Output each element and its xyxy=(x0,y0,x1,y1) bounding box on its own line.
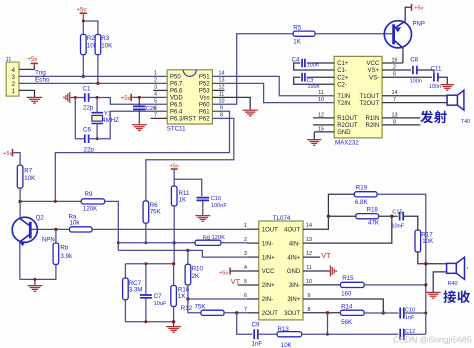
svg-text:P61: P61 xyxy=(199,110,210,116)
svg-text:1IN+: 1IN+ xyxy=(262,255,275,261)
ground (MAX232) xyxy=(307,140,321,146)
wire +5v to VDD pin4 xyxy=(131,96,167,98)
svg-text:R7: R7 xyxy=(24,167,32,174)
wire PNP emitter to +5v xyxy=(405,7,411,21)
wire R13 to junction xyxy=(302,333,328,335)
svg-text:T2IN: T2IN xyxy=(337,101,350,107)
label receive xyxy=(443,290,456,303)
svg-text:10uF: 10uF xyxy=(154,301,167,307)
resistor R16 xyxy=(173,264,175,286)
wire C6 to MCU pin6 xyxy=(89,111,168,139)
svg-text:R15: R15 xyxy=(342,275,354,282)
wire ground to C1 xyxy=(70,97,84,99)
svg-text:4: 4 xyxy=(11,67,15,74)
svg-text:P51: P51 xyxy=(199,75,210,81)
transistor Q2 NPN xyxy=(12,217,37,242)
wire 4IN- to R18/C15 junction xyxy=(303,216,392,243)
junction C7 bottom xyxy=(144,320,147,323)
wire C10 to V1 xyxy=(404,312,426,314)
svg-text:1: 1 xyxy=(154,71,157,77)
resistor Ra xyxy=(70,227,93,232)
svg-text:3OUT: 3OUT xyxy=(284,311,300,317)
junction VDD/C26 xyxy=(138,96,141,99)
wire RC7 block bottom row xyxy=(125,321,173,323)
svg-text:VT: VT xyxy=(321,251,331,260)
ground (crystal, left) xyxy=(64,92,70,103)
capacitor C3 loop xyxy=(294,77,335,84)
svg-text:10: 10 xyxy=(306,279,312,285)
resistor R3 xyxy=(95,34,101,54)
wire Ra to 1OUT row xyxy=(92,228,247,230)
svg-text:1: 1 xyxy=(244,223,247,229)
svg-text:R2OUT: R2OUT xyxy=(337,123,358,129)
svg-text:C11: C11 xyxy=(431,65,442,72)
svg-text:T2OUT: T2OUT xyxy=(360,101,380,107)
ground (C26) xyxy=(132,125,147,131)
svg-text:+5v: +5v xyxy=(28,57,38,63)
svg-text:1: 1 xyxy=(11,88,15,95)
ground (J1) xyxy=(27,97,43,103)
wire R7 to collector node xyxy=(19,188,21,218)
svg-text:R13: R13 xyxy=(278,326,290,333)
ground (Q2 emitter) xyxy=(27,286,42,292)
capacitor C1 xyxy=(85,93,89,102)
svg-text:C16: C16 xyxy=(211,196,221,202)
svg-text:10K: 10K xyxy=(422,238,434,245)
svg-text:P52: P52 xyxy=(199,82,210,88)
svg-text:+5v: +5v xyxy=(3,151,12,157)
svg-text:14: 14 xyxy=(219,70,225,76)
wire R18 row xyxy=(328,215,355,217)
svg-text:3.9k: 3.9k xyxy=(60,253,73,260)
wire T2OUT to transducer xyxy=(382,102,447,104)
svg-text:T1OUT: T1OUT xyxy=(360,94,380,100)
ground (receiver) xyxy=(426,292,441,298)
svg-text:C3: C3 xyxy=(307,78,314,84)
svg-text:R2IN: R2IN xyxy=(366,123,380,129)
junction 3IN+ tap xyxy=(382,311,385,314)
junction 3OUT/bottom branch xyxy=(326,311,329,314)
svg-text:+5v: +5v xyxy=(414,6,423,12)
resistor Rb xyxy=(53,243,59,265)
wire 3IN+ to R14 row xyxy=(303,299,383,313)
transducer T40 transmit xyxy=(447,95,457,105)
svg-text:P6.6: P6.6 xyxy=(170,89,183,95)
junction emitter gnd xyxy=(33,278,36,281)
svg-text:11: 11 xyxy=(219,91,225,97)
wire node to 1IN+ xyxy=(118,249,188,251)
resistor R7 xyxy=(17,165,23,188)
svg-text:10nF: 10nF xyxy=(391,223,404,229)
junction R10 top xyxy=(186,249,189,252)
svg-text:8: 8 xyxy=(308,307,311,313)
svg-text:R2: R2 xyxy=(87,35,95,42)
svg-text:11: 11 xyxy=(318,90,324,96)
capacitor C16 xyxy=(197,198,210,201)
svg-text:2OUT: 2OUT xyxy=(262,311,278,317)
svg-text:2: 2 xyxy=(244,237,247,243)
IC U2 MAX232 xyxy=(334,56,382,137)
wire R18 to C15 xyxy=(379,215,398,217)
wire R2 to Trig line xyxy=(82,55,84,77)
svg-text:C1-: C1- xyxy=(337,68,347,74)
junction C7 top xyxy=(144,262,147,265)
ground (R16) xyxy=(166,327,181,333)
svg-text:13: 13 xyxy=(306,237,312,243)
svg-text:R8: R8 xyxy=(203,235,210,241)
svg-text:R1OUT: R1OUT xyxy=(337,116,358,122)
wire Q2 emitter down xyxy=(19,242,21,280)
junction row242 tap xyxy=(117,241,120,244)
capacitor C10 xyxy=(400,308,404,319)
svg-text:10: 10 xyxy=(219,98,225,104)
junction bottom row xyxy=(326,333,329,336)
svg-text:J1: J1 xyxy=(6,57,12,63)
svg-text:10K: 10K xyxy=(24,175,36,182)
svg-text:10: 10 xyxy=(318,97,324,103)
svg-text:VS+: VS+ xyxy=(368,68,380,74)
MCU pin7 stub xyxy=(151,117,168,119)
connector J1 xyxy=(6,62,19,96)
junction crystal bottom xyxy=(96,137,99,140)
svg-text:8: 8 xyxy=(220,112,223,118)
svg-text:GND: GND xyxy=(287,269,301,275)
svg-text:12: 12 xyxy=(306,251,312,257)
junction C10/V1 xyxy=(424,312,427,315)
svg-text:+5v: +5v xyxy=(219,271,228,277)
svg-text:12: 12 xyxy=(219,84,225,90)
svg-text:2IN+: 2IN+ xyxy=(262,283,275,289)
wire C9 to R13 xyxy=(258,333,277,335)
svg-text:C8: C8 xyxy=(410,56,418,63)
svg-text:R9: R9 xyxy=(85,191,93,198)
junction R18 tap xyxy=(327,215,330,218)
svg-text:R12: R12 xyxy=(181,305,193,312)
wire R9 to 1IN+ node xyxy=(105,201,119,250)
svg-text:2IN-: 2IN- xyxy=(262,297,273,303)
wire R3 to Echo line xyxy=(97,55,99,84)
svg-text:+5v: +5v xyxy=(121,96,131,102)
svg-text:C1: C1 xyxy=(83,86,91,93)
TL074 GND sideways ground xyxy=(303,270,330,272)
svg-text:GND: GND xyxy=(337,130,351,136)
svg-text:1nF: 1nF xyxy=(405,315,415,321)
svg-text:VS-: VS- xyxy=(369,75,379,81)
resistor R8 xyxy=(195,240,221,245)
svg-text:STC11: STC11 xyxy=(167,126,186,133)
svg-text:Q2: Q2 xyxy=(36,216,45,222)
svg-text:4OUT: 4OUT xyxy=(284,227,300,233)
wire R19 to V1 column xyxy=(377,194,426,334)
wire P51 to T1IN xyxy=(212,76,334,95)
transistor Q1 PNP xyxy=(384,21,411,48)
resistor R13 xyxy=(277,332,302,337)
wire P62 to bus2 xyxy=(146,118,234,200)
svg-text:R14: R14 xyxy=(341,303,353,310)
svg-text:R40: R40 xyxy=(448,281,458,287)
svg-text:160: 160 xyxy=(341,291,352,298)
wire P52 to T2IN xyxy=(212,83,334,102)
ground (C16) xyxy=(195,216,210,222)
wire branch down xyxy=(327,313,329,334)
wire bottom row to C12 xyxy=(328,333,399,335)
ground (TL074 GND) xyxy=(330,266,336,277)
svg-text:13: 13 xyxy=(219,77,225,83)
svg-text:TL074: TL074 xyxy=(273,215,291,222)
svg-text:1IN-: 1IN- xyxy=(262,241,273,247)
capacitor C4 loop xyxy=(294,63,335,70)
svg-text:MAX232: MAX232 xyxy=(335,139,359,146)
svg-text:CSDN @Songji5665: CSDN @Songji5665 xyxy=(393,335,472,345)
resistor R15 xyxy=(340,282,364,287)
svg-text:3IN+: 3IN+ xyxy=(287,297,300,303)
svg-text:100n: 100n xyxy=(307,63,319,69)
capacitor C26 xyxy=(138,97,140,106)
svg-text:VDD: VDD xyxy=(170,96,183,102)
wire 4OUT to feedback column xyxy=(303,194,354,229)
svg-text:10k: 10k xyxy=(70,220,81,227)
svg-text:100nF: 100nF xyxy=(211,203,227,209)
junction V1/receiver row xyxy=(424,262,427,265)
wire PNP collector to VCC row xyxy=(402,48,404,63)
svg-text:7: 7 xyxy=(154,113,157,119)
wire RC7 block top row xyxy=(125,263,173,265)
power +5v (R2/R3 pullups) xyxy=(82,17,84,34)
wire 3OUT row xyxy=(303,312,340,314)
wire R12 to 2OUT xyxy=(224,312,247,314)
junction R10/row299 xyxy=(186,297,189,300)
svg-text:9: 9 xyxy=(220,105,223,111)
svg-text:C7: C7 xyxy=(154,293,162,300)
svg-text:P6.7: P6.7 xyxy=(170,82,183,88)
J1 pin1 wire to ground xyxy=(19,90,35,97)
junction R2-Trig xyxy=(82,75,85,78)
svg-text:PNP: PNP xyxy=(413,21,425,27)
wire C15 to R17 xyxy=(403,216,418,230)
transducer R40 receive xyxy=(447,263,457,273)
svg-text:P62: P62 xyxy=(199,117,210,123)
svg-text:3IN-: 3IN- xyxy=(289,283,300,289)
ground (C11) xyxy=(441,85,455,91)
power +5v (PNP) xyxy=(411,4,413,11)
svg-text:75K: 75K xyxy=(195,304,207,311)
svg-text:11: 11 xyxy=(306,265,312,271)
svg-text:75K: 75K xyxy=(150,209,162,216)
wire R17 to receiver xyxy=(418,252,447,264)
net label VT (4IN+) xyxy=(303,256,320,258)
svg-text:C9: C9 xyxy=(252,322,260,329)
resistor R5 xyxy=(293,31,315,36)
MAX232 R1IN stub xyxy=(382,117,420,119)
wire row242 xyxy=(118,242,195,244)
capacitor C8 on VS+ xyxy=(382,69,411,71)
MCU pin12 stub xyxy=(212,89,224,91)
svg-text:2: 2 xyxy=(154,78,157,84)
svg-text:C6: C6 xyxy=(83,127,91,134)
resistor R9 xyxy=(81,199,105,204)
svg-text:3.3M: 3.3M xyxy=(129,287,143,294)
svg-text:6: 6 xyxy=(154,106,157,112)
wire +5v branch to C16 xyxy=(174,179,202,196)
svg-text:R1IN: R1IN xyxy=(366,116,380,122)
capacitor C6 xyxy=(85,135,89,144)
wire T1OUT to transducer xyxy=(382,95,447,97)
svg-text:C2+: C2+ xyxy=(337,75,349,81)
svg-text:10K: 10K xyxy=(101,43,113,50)
svg-text:T1IN: T1IN xyxy=(337,94,350,100)
resistor R18 xyxy=(356,214,379,219)
svg-text:R19: R19 xyxy=(356,184,368,191)
resistor R19 xyxy=(354,192,377,197)
svg-text:4IN-: 4IN- xyxy=(289,241,300,247)
svg-text:P50: P50 xyxy=(170,75,181,81)
junction R2/R3 split xyxy=(82,20,85,23)
svg-text:1K: 1K xyxy=(293,39,301,46)
svg-text:P53: P53 xyxy=(199,89,210,95)
wire branch down to C9 row xyxy=(237,313,253,334)
svg-text:120K: 120K xyxy=(212,235,226,241)
svg-text:P6.3/RST: P6.3/RST xyxy=(170,117,196,123)
junction crystal top xyxy=(96,96,99,99)
wire receiver lower pin to ground xyxy=(433,272,446,292)
svg-text:100n: 100n xyxy=(410,78,422,84)
svg-text:47K: 47K xyxy=(368,219,380,226)
svg-text:100n: 100n xyxy=(429,84,441,90)
ground (Vss) xyxy=(243,110,258,116)
svg-text:P60: P60 xyxy=(199,103,210,109)
wire P60 to R5 xyxy=(212,34,293,105)
wire Echo net xyxy=(19,82,167,84)
svg-text:C2-: C2- xyxy=(337,82,347,88)
svg-text:C4: C4 xyxy=(292,56,300,63)
svg-text:6.8K: 6.8K xyxy=(355,199,369,206)
svg-text:10K: 10K xyxy=(281,342,293,348)
svg-text:3: 3 xyxy=(154,85,157,91)
junction R16 bottom / ground xyxy=(172,320,175,323)
wire P61 to bus1 xyxy=(55,111,229,201)
MCU U1 STC11 xyxy=(167,70,212,124)
junction crystal gnd branch xyxy=(74,96,77,99)
junction R15/V1 xyxy=(424,283,427,286)
junction R11/row242 xyxy=(173,241,176,244)
svg-text:R3: R3 xyxy=(101,35,109,42)
junction 4IN- tap xyxy=(390,215,393,218)
svg-text:P6.4: P6.4 xyxy=(170,110,183,116)
label transmit xyxy=(420,111,433,124)
wire 3IN- to R15 xyxy=(303,284,340,286)
svg-text:1OUT: 1OUT xyxy=(262,227,278,233)
capacitor C7 xyxy=(145,264,147,295)
junction R16 top xyxy=(172,262,175,265)
svg-text:R10: R10 xyxy=(192,265,204,272)
svg-text:4: 4 xyxy=(154,92,157,98)
wire R8 to 1IN- xyxy=(221,242,247,244)
resistor RC7 xyxy=(124,264,126,278)
svg-text:Trig: Trig xyxy=(35,70,46,77)
op-amp U3 TL074 xyxy=(259,221,303,320)
wire C12 to V1 xyxy=(404,333,426,335)
MAX232 GND wire xyxy=(314,131,334,133)
svg-text:4IN+: 4IN+ xyxy=(287,255,300,261)
svg-text:Vss: Vss xyxy=(200,96,210,102)
wire crystal vertical xyxy=(96,98,98,113)
svg-text:Echo: Echo xyxy=(35,77,50,84)
wire R6 bottom to row242 xyxy=(145,223,147,243)
svg-text:VCC: VCC xyxy=(262,269,275,275)
svg-text:P6.5: P6.5 xyxy=(170,103,183,109)
svg-text:3: 3 xyxy=(11,74,15,81)
wire R10 node down to R12 row xyxy=(188,299,201,313)
junction R7/Q2/R9 xyxy=(18,200,21,203)
svg-text:C15: C15 xyxy=(392,210,402,216)
wire node to R9 xyxy=(20,200,81,202)
resistor R11 xyxy=(171,186,177,206)
capacitor C9 xyxy=(254,329,258,339)
resistor R6 xyxy=(143,201,149,223)
svg-text:NPN: NPN xyxy=(42,238,55,244)
capacitor C15 xyxy=(400,212,404,221)
junction bus1 tap xyxy=(54,200,57,203)
svg-text:5: 5 xyxy=(154,99,157,105)
svg-text:VCC: VCC xyxy=(367,61,380,67)
svg-text:4: 4 xyxy=(244,265,247,271)
svg-text:2K: 2K xyxy=(192,273,200,280)
resistor R2 xyxy=(81,34,87,54)
J1 pin4 wire to +5v xyxy=(19,65,34,69)
svg-text:120K: 120K xyxy=(83,206,98,213)
wire R11 bottom xyxy=(173,206,175,264)
wire VCC stub xyxy=(382,62,403,64)
MAX232 R2OUT stub xyxy=(313,124,334,126)
resistor R17 xyxy=(415,230,421,252)
svg-text:1K: 1K xyxy=(179,196,187,203)
svg-text:22p: 22p xyxy=(83,105,94,112)
svg-text:56K: 56K xyxy=(341,319,353,326)
wire +5v to R7 xyxy=(13,153,21,166)
wire Rb to emitter ground row xyxy=(20,265,56,280)
svg-text:7: 7 xyxy=(244,307,247,313)
svg-text:C1+: C1+ xyxy=(337,61,349,67)
wire R5 to PNP base xyxy=(315,33,392,35)
wire Q2 base row xyxy=(32,228,70,230)
capacitor C12 xyxy=(400,329,404,340)
wire R10 bottom to 2IN- row xyxy=(187,285,189,299)
resistor R12 xyxy=(201,310,224,315)
svg-text:R18: R18 xyxy=(367,207,379,214)
junction R3-Echo xyxy=(96,82,99,85)
wire gnd branch down to C6 row xyxy=(75,98,84,139)
svg-text:9: 9 xyxy=(308,293,311,299)
crystal Y1 xyxy=(92,113,104,124)
svg-text:100n: 100n xyxy=(308,84,320,90)
power +5v (J1) xyxy=(31,62,39,64)
svg-text:Rb: Rb xyxy=(60,244,68,251)
svg-text:3: 3 xyxy=(244,251,247,257)
wire Trig net xyxy=(19,75,167,77)
svg-text:5: 5 xyxy=(244,279,247,285)
MAX232 R2IN stub xyxy=(382,124,420,126)
svg-text:R5: R5 xyxy=(293,24,301,31)
svg-text:1K: 1K xyxy=(178,293,186,300)
svg-text:T40: T40 xyxy=(461,119,470,125)
capacitor C11 on VS- xyxy=(382,76,432,78)
wire C1 to crystal node xyxy=(89,98,168,105)
wire R14 to C10 xyxy=(364,312,398,314)
svg-text:2: 2 xyxy=(11,81,15,88)
wire Vss to ground xyxy=(212,97,250,110)
resistor R14 xyxy=(340,310,364,315)
wire 2IN- row xyxy=(188,298,247,300)
